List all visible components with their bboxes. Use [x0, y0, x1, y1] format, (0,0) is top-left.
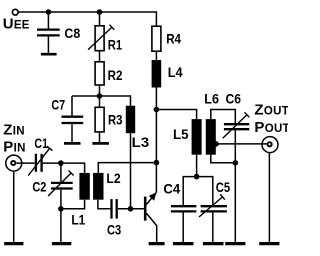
svg-text:C3: C3: [107, 221, 121, 237]
svg-text:L6: L6: [204, 90, 219, 106]
svg-text:R4: R4: [166, 31, 181, 47]
svg-text:C1: C1: [34, 135, 48, 151]
svg-text:L1: L1: [71, 211, 85, 227]
svg-text:C5: C5: [216, 179, 231, 195]
svg-text:L3: L3: [132, 134, 150, 150]
svg-text:C8: C8: [64, 25, 80, 41]
svg-text:C2: C2: [32, 178, 46, 194]
svg-text:L4: L4: [168, 64, 183, 80]
svg-text:R3: R3: [108, 112, 123, 128]
svg-text:C7: C7: [51, 97, 65, 113]
svg-text:R1: R1: [108, 36, 123, 52]
svg-text:L2: L2: [106, 170, 120, 186]
svg-text:C6: C6: [226, 90, 242, 106]
svg-text:R2: R2: [108, 67, 123, 83]
svg-text:L5: L5: [173, 126, 189, 142]
svg-text:C4: C4: [163, 180, 180, 196]
